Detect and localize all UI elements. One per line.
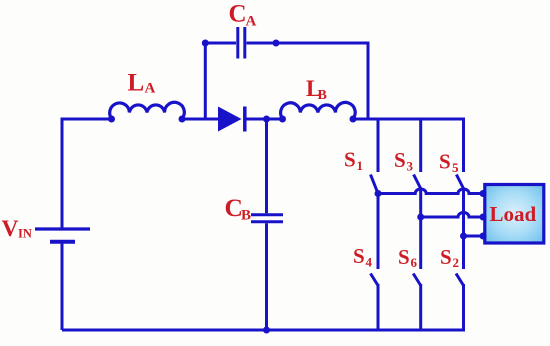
svg-text:S: S bbox=[440, 245, 452, 269]
svg-text:A: A bbox=[145, 81, 156, 97]
svg-text:B: B bbox=[318, 88, 327, 103]
svg-text:6: 6 bbox=[411, 255, 418, 270]
svg-text:V: V bbox=[2, 216, 19, 242]
svg-text:1: 1 bbox=[357, 158, 364, 173]
svg-text:S: S bbox=[394, 148, 406, 172]
svg-text:5: 5 bbox=[452, 160, 459, 175]
svg-text:C: C bbox=[229, 1, 247, 28]
svg-text:IN: IN bbox=[18, 227, 32, 241]
svg-text:A: A bbox=[246, 14, 257, 30]
svg-text:S: S bbox=[344, 148, 356, 172]
svg-text:4: 4 bbox=[366, 255, 373, 270]
svg-text:B: B bbox=[241, 208, 251, 224]
svg-text:S: S bbox=[398, 245, 410, 269]
svg-text:2: 2 bbox=[453, 255, 460, 270]
svg-text:L: L bbox=[128, 70, 145, 97]
svg-text:Load: Load bbox=[490, 202, 537, 226]
svg-text:S: S bbox=[439, 150, 451, 174]
svg-text:S: S bbox=[353, 244, 365, 268]
svg-text:3: 3 bbox=[407, 159, 414, 174]
